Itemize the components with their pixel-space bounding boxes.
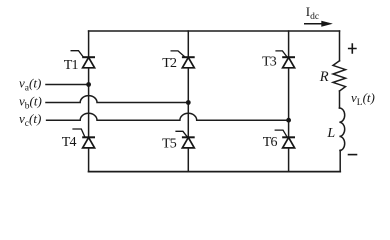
svg-text:L: L: [326, 126, 335, 141]
svg-text:T5: T5: [162, 136, 177, 151]
svg-text:R: R: [319, 69, 329, 85]
svg-text:T6: T6: [263, 135, 278, 150]
svg-text:T3: T3: [262, 55, 277, 70]
svg-text:T1: T1: [64, 58, 79, 73]
svg-text:T2: T2: [162, 56, 177, 71]
svg-text:T4: T4: [62, 135, 77, 150]
